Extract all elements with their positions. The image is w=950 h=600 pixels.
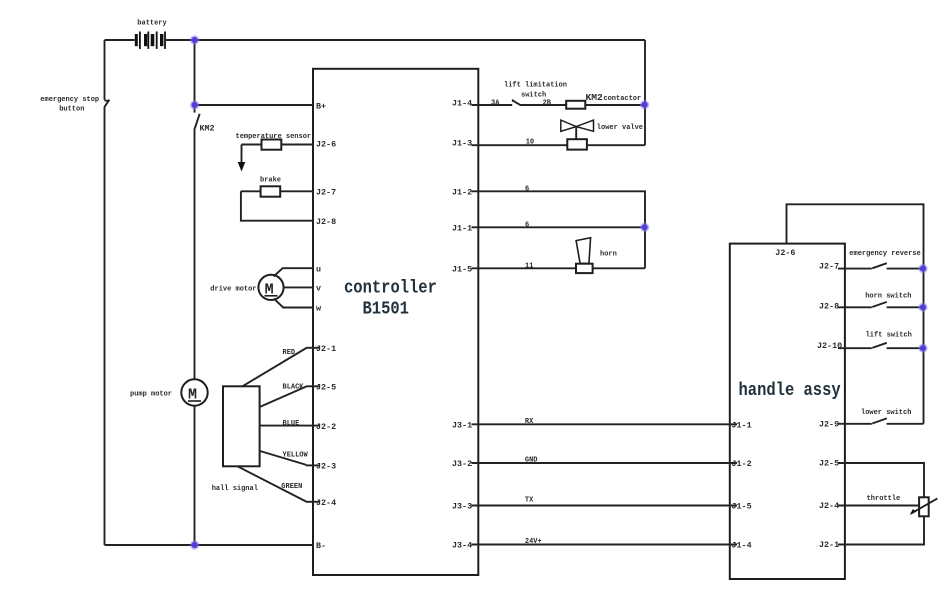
svg-text:GREEN: GREEN (281, 483, 302, 491)
svg-text:J3-4: J3-4 (452, 541, 472, 551)
svg-text:J3-2: J3-2 (452, 459, 472, 469)
svg-text:lift limitation: lift limitation (504, 82, 567, 90)
svg-text:6: 6 (525, 185, 529, 193)
svg-text:button: button (59, 105, 84, 113)
svg-text:RX: RX (525, 418, 534, 426)
svg-text:w: w (316, 304, 321, 314)
svg-text:B1501: B1501 (363, 299, 409, 320)
svg-text:6: 6 (525, 221, 529, 229)
svg-text:switch: switch (521, 91, 546, 99)
svg-text:BLUE: BLUE (283, 420, 300, 428)
svg-text:temperature sensor: temperature sensor (236, 133, 312, 141)
svg-text:J2-2: J2-2 (316, 422, 336, 432)
svg-text:2B: 2B (543, 99, 552, 107)
svg-text:handle assy: handle assy (739, 381, 842, 402)
svg-text:J1-1: J1-1 (452, 223, 472, 233)
svg-text:horn: horn (600, 250, 617, 258)
svg-text:J1-5: J1-5 (452, 264, 472, 274)
svg-text:B+: B+ (316, 101, 326, 111)
svg-text:11: 11 (525, 262, 533, 270)
svg-text:throttle: throttle (867, 495, 901, 503)
svg-text:J1-3: J1-3 (452, 139, 472, 149)
svg-text:J2-3: J2-3 (316, 462, 336, 472)
svg-text:drive motor: drive motor (210, 286, 256, 294)
svg-text:24V+: 24V+ (525, 538, 542, 546)
svg-text:lower switch: lower switch (861, 409, 911, 417)
svg-text:u: u (316, 264, 321, 274)
svg-text:brake: brake (260, 176, 281, 184)
svg-text:J2-1: J2-1 (316, 344, 336, 354)
svg-text:J2-10: J2-10 (817, 341, 842, 351)
svg-text:J2-6: J2-6 (775, 248, 795, 258)
svg-text:battery: battery (137, 20, 167, 28)
svg-text:RED: RED (283, 349, 296, 357)
svg-text:J1-4: J1-4 (732, 541, 752, 551)
svg-text:J2-8: J2-8 (819, 302, 839, 312)
svg-text:lift switch: lift switch (866, 331, 912, 339)
svg-text:J2-9: J2-9 (819, 419, 839, 429)
svg-text:J3-1: J3-1 (452, 420, 472, 430)
svg-text:J2-6: J2-6 (316, 140, 336, 150)
svg-text:J3-3: J3-3 (452, 501, 472, 511)
svg-text:emergency reverse: emergency reverse (849, 250, 920, 258)
svg-text:J2-8: J2-8 (316, 217, 336, 227)
svg-text:controller: controller (344, 278, 437, 299)
svg-text:TX: TX (525, 497, 534, 505)
svg-text:J2-7: J2-7 (819, 262, 839, 272)
svg-text:horn switch: horn switch (865, 292, 911, 300)
svg-text:B-: B- (316, 541, 326, 551)
svg-text:J2-5: J2-5 (819, 459, 839, 469)
svg-text:hall signal: hall signal (212, 485, 258, 493)
svg-text:J2-4: J2-4 (819, 501, 839, 511)
svg-text:J1-1: J1-1 (732, 420, 752, 430)
svg-text:J2-7: J2-7 (316, 187, 336, 197)
svg-text:J1-2: J1-2 (452, 187, 472, 197)
svg-text:YELLOW: YELLOW (283, 452, 309, 460)
svg-text:J2-1: J2-1 (819, 540, 839, 550)
svg-text:KM2: KM2 (200, 124, 215, 134)
svg-text:KM2: KM2 (586, 92, 604, 103)
svg-text:contactor: contactor (603, 95, 641, 103)
svg-text:pump motor: pump motor (130, 391, 172, 399)
svg-text:J1-4: J1-4 (452, 99, 472, 109)
svg-text:J1-2: J1-2 (732, 459, 752, 469)
svg-text:emergency stop: emergency stop (40, 96, 99, 104)
svg-text:J1-5: J1-5 (732, 501, 752, 511)
svg-text:3A: 3A (491, 99, 500, 107)
svg-text:v: v (316, 284, 321, 294)
svg-text:J2-4: J2-4 (316, 498, 336, 508)
svg-text:BLACK: BLACK (283, 384, 305, 392)
svg-text:GND: GND (525, 457, 538, 465)
svg-text:10: 10 (526, 138, 534, 146)
svg-text:J2-5: J2-5 (316, 383, 336, 393)
svg-text:lower valve: lower valve (597, 124, 643, 132)
